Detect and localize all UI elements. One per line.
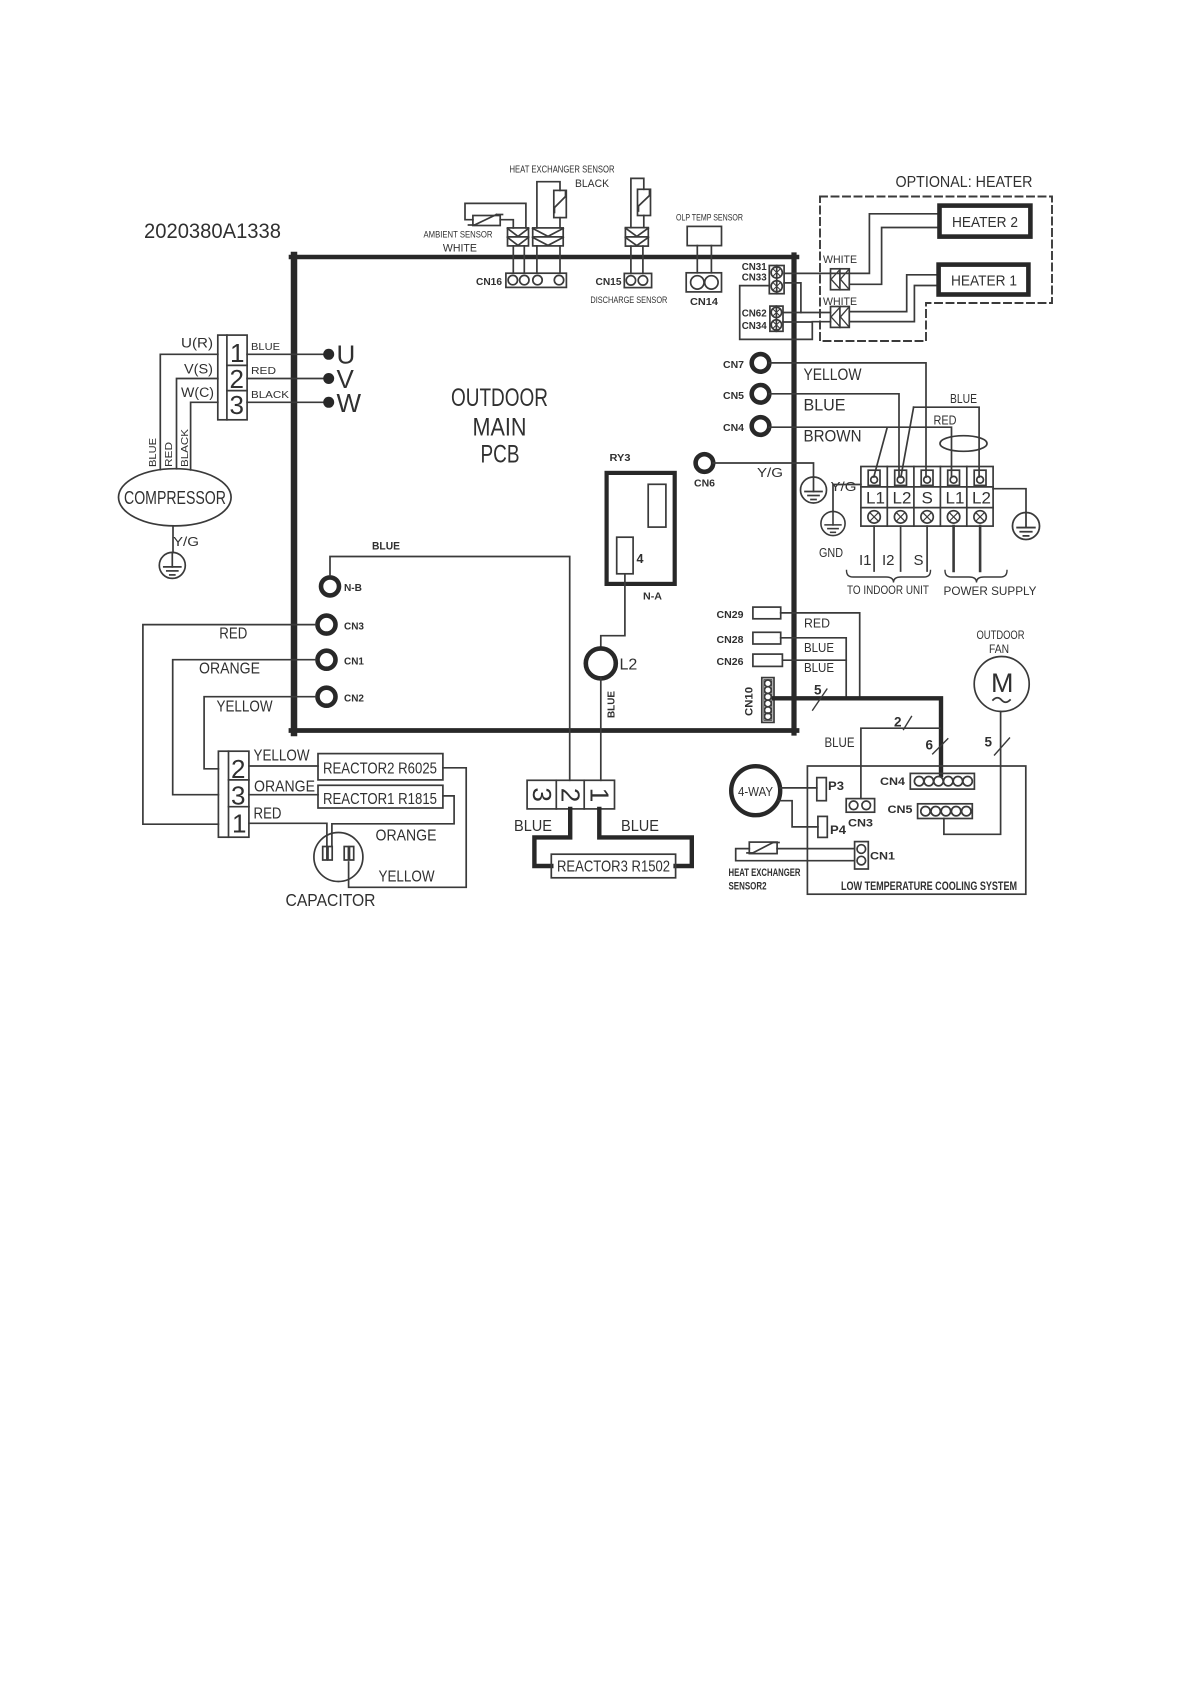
wire terminal 3 to node W [247,401,326,403]
thick wire pin2 to reactor3 [534,809,570,866]
wire terminal 1 to capacitor [249,823,327,846]
wire U(R) feed [160,354,218,469]
svg-text:L2: L2 [620,657,638,674]
svg-text:OLP TEMP SENSOR: OLP TEMP SENSOR [676,213,743,224]
heat exchanger sensor wire loop [537,182,560,228]
node U [323,349,334,360]
wire lower WHITE to heater 1 lower [849,286,938,322]
svg-text:RED: RED [164,442,175,467]
svg-text:2: 2 [894,715,902,730]
connector symbol heat exchanger sensor [533,228,564,246]
svg-text:CN6: CN6 [694,479,715,490]
terminal P3 [817,778,827,801]
connector symbol ambient sensor [508,228,529,246]
connector CN1 [318,651,336,669]
svg-text:GND: GND [819,546,843,560]
labels CN62 CN34 [742,308,767,333]
svg-text:CN15: CN15 [596,276,622,288]
svg-text:BLUE: BLUE [621,818,659,835]
heat exchanger sensor thermistor [554,190,567,217]
svg-text:CN62: CN62 [742,308,767,320]
svg-text:L1: L1 [866,489,885,508]
bundle marker 5 (bus) [813,689,827,710]
svg-text:P3: P3 [828,781,844,793]
svg-text:YELLOW: YELLOW [379,869,435,886]
ambient sensor thermistor [469,215,503,226]
svg-text:N-A: N-A [643,591,662,603]
wire CN62 to lower WHITE [783,312,831,314]
wire YELLOW CN2 to terminal 2 [204,697,316,769]
inductor L2 [586,648,616,678]
svg-text:1: 1 [584,788,614,802]
thick wire pin1 to reactor3 [599,809,692,866]
svg-text:CN2: CN2 [344,694,364,705]
wire terminal block to right ground [993,489,1026,513]
wire BROWN CN4 to terminal L1 power [769,427,951,477]
svg-text:RED: RED [251,366,276,377]
labels L1 L2 S L1 L2 [866,489,991,508]
connector CN15 [624,273,651,287]
connector CN2 [318,688,336,706]
thick bus CN10 to low temp CN4 [774,698,941,775]
wire CN3 low-temp 2-core [861,728,940,798]
wire BLUE power supply line [914,407,980,477]
labels I1 I2 S [859,552,924,569]
svg-text:WHITE: WHITE [443,243,477,255]
diagonal wire terminal L1 indoor to brown line [874,428,887,477]
connector CN28 [753,632,781,644]
wire terminal 2 to node V [247,378,326,380]
svg-text:CN7: CN7 [723,360,744,371]
wire Y/G CN6 to ground [713,463,813,477]
wire CN34 loop to lower WHITE lower pin [740,286,831,340]
svg-text:CN5: CN5 [723,391,744,402]
connector CN29 [753,607,781,619]
connector CN5 [752,385,770,403]
svg-text:ORANGE: ORANGE [376,828,437,845]
wire sensor2 to CN1 [736,849,855,861]
svg-text:BLUE: BLUE [804,640,834,655]
brace power supply [945,571,1007,583]
svg-text:WHITE: WHITE [823,254,857,266]
svg-text:P4: P4 [830,825,847,837]
svg-text:CN5: CN5 [888,804,913,816]
svg-text:BLUE: BLUE [950,391,977,406]
svg-text:5: 5 [814,683,822,698]
wires sensor leads into CN16 [513,246,560,273]
compressor ellipse [119,469,232,526]
wire upper WHITE to heater 2 lower [849,228,939,285]
wire RED CN29 to bus [781,613,860,697]
svg-text:I2: I2 [882,552,895,569]
wires below indoor terminals [874,526,927,571]
svg-text:REACTOR1 R1815: REACTOR1 R1815 [323,791,437,808]
svg-text:CN10: CN10 [744,687,756,716]
relay RY3 coil [617,537,633,574]
svg-text:CN1: CN1 [344,657,364,668]
svg-text:CN28: CN28 [717,635,744,646]
outdoor main PCB board outline [291,255,797,733]
heater 1 box [939,265,1029,295]
svg-text:CN16: CN16 [476,276,502,288]
discharge sensor wire loop [631,178,644,227]
svg-text:Y/G: Y/G [831,479,857,494]
svg-text:LOW TEMPERATURE COOLING SYSTEM: LOW TEMPERATURE COOLING SYSTEM [841,879,1017,893]
cable grommet ellipse [940,436,987,452]
ground right of terminal block [1012,512,1039,539]
svg-text:OUTDOOR: OUTDOOR [451,384,548,412]
connector CN1 low temp [855,842,869,869]
wire ORANGE CN1 to terminal 3 [173,660,316,795]
connector N-B [321,577,339,595]
svg-text:CN29: CN29 [717,610,744,621]
wire BLUE CN26 joins bus [782,659,846,661]
svg-text:5: 5 [985,735,993,750]
svg-text:CN26: CN26 [717,657,744,668]
reactor2 box [318,754,443,780]
svg-text:3: 3 [231,781,245,811]
svg-text:ORANGE: ORANGE [254,779,315,796]
bundle marker 6 [933,739,948,754]
wire N-B blue to reactor connector pin 2 [330,557,570,781]
svg-text:CN4: CN4 [723,423,744,434]
svg-text:CN34: CN34 [742,320,767,332]
svg-text:BLACK: BLACK [251,390,289,401]
svg-text:CN33: CN33 [742,272,767,284]
ground (compressor) [159,552,185,578]
svg-text:6: 6 [926,738,934,753]
brace to indoor unit [847,571,931,583]
svg-text:V(S): V(S) [184,362,213,377]
wire W(C) feed [191,402,218,470]
wire 4-way to P4 [779,801,818,827]
wire terminal 2 to reactor2 [249,765,318,767]
dashed optional heater enclosure [820,197,1052,342]
connector CN62/CN34 [770,306,783,331]
svg-text:BLUE: BLUE [148,438,159,467]
wire YELLOW reactor2 to capacitor [349,768,467,888]
connector CN4 low temp [910,773,974,789]
labels CN31 CN33 [742,261,767,284]
terminal strip U/V/W 1-2-3 [218,335,247,420]
wire compressor to ground [172,526,174,553]
label OUTDOOR MAIN PCB [451,384,548,469]
svg-text:3: 3 [527,787,557,801]
wire CN31 to heater 2 upper [784,214,939,274]
svg-text:N-B: N-B [344,583,362,594]
svg-text:RED: RED [804,616,830,631]
terminal block outline [861,467,993,527]
connector CN16 [506,273,567,287]
connector CN10 [762,678,774,723]
svg-text:3: 3 [230,390,244,420]
wire fan to CN5 low-temp [944,712,1001,835]
svg-text:OUTDOOR: OUTDOOR [977,628,1025,642]
connector CN6 [696,454,714,472]
svg-text:2020380A1338: 2020380A1338 [144,220,281,243]
connector WHITE upper [831,269,850,290]
wire CN33 to lower WHITE upper pin [784,283,801,313]
terminal strip 2-3-1 [218,751,249,837]
svg-text:BROWN: BROWN [804,428,862,446]
node V [323,373,334,384]
connector CN4 [752,417,770,435]
OLP temp sensor box [687,226,721,245]
wire GND to terminal block [833,485,861,512]
reactor connector 3-2-1 [527,780,614,809]
connector CN7 [752,354,770,372]
connector WHITE lower [831,307,850,328]
bundle marker 2 [904,717,912,730]
terminal P4 [818,816,827,837]
svg-text:CN4: CN4 [880,776,906,788]
ambient sensor wire loop [465,203,526,228]
svg-text:RED: RED [219,626,247,643]
connector symbol discharge sensor [625,228,648,247]
ground GND [821,511,845,535]
connector CN26 [753,654,783,666]
reactor3 box [551,854,675,878]
svg-text:MAIN: MAIN [473,414,527,442]
svg-text:L2: L2 [972,489,991,508]
node W [323,397,334,408]
svg-text:RED: RED [254,806,282,823]
svg-text:2: 2 [555,788,585,802]
svg-text:S: S [922,489,933,508]
svg-text:L1: L1 [946,489,965,508]
svg-text:BLUE: BLUE [514,818,552,835]
svg-text:Y/G: Y/G [757,465,783,480]
svg-text:1: 1 [232,809,246,839]
wire 4-way to P3 [780,787,817,789]
svg-text:FAN: FAN [989,642,1009,656]
svg-text:RED: RED [934,413,957,428]
4-way valve [731,766,780,815]
relay RY3 contact [648,484,666,527]
svg-text:COMPRESSOR: COMPRESSOR [124,487,226,508]
wire BLUE CN28 to bus [781,638,847,697]
svg-text:YELLOW: YELLOW [217,699,273,716]
connector CN14 [686,273,721,292]
svg-text:BLACK: BLACK [575,178,610,190]
svg-text:BLUE: BLUE [607,691,618,718]
heat exchanger sensor 2 thermistor [747,842,779,854]
wire lower WHITE to heater 1 upper [849,275,938,312]
wire terminal 1 to node U [247,353,326,355]
svg-text:AMBIENT SENSOR: AMBIENT SENSOR [424,230,493,241]
wire terminal 3 to reactor1 [249,794,318,796]
svg-text:REACTOR3 R1502: REACTOR3 R1502 [557,859,670,876]
svg-text:YELLOW: YELLOW [254,748,310,765]
svg-text:BLACK: BLACK [180,429,191,467]
svg-text:BLUE: BLUE [804,397,846,415]
svg-text:2: 2 [231,754,245,784]
svg-text:W(C): W(C) [181,385,214,400]
svg-text:HEAT EXCHANGER SENSOR: HEAT EXCHANGER SENSOR [510,165,615,176]
svg-text:4: 4 [637,552,644,566]
svg-text:W: W [337,388,362,418]
wire RY3 to L2 [601,574,625,647]
svg-text:I1: I1 [859,552,872,569]
svg-text:Y/G: Y/G [173,534,199,549]
svg-text:PCB: PCB [481,441,520,469]
svg-text:BLUE: BLUE [825,734,855,750]
svg-text:CN1: CN1 [870,851,895,863]
heater 2 box [940,206,1031,237]
ground Y/G near terminal block [801,477,827,503]
svg-text:OPTIONAL: HEATER: OPTIONAL: HEATER [896,174,1033,191]
wires discharge sensor leads into CN15 [631,246,643,273]
wire ORANGE reactor1 to capacitor [332,796,454,846]
label OUTDOOR FAN [977,628,1025,656]
svg-text:M: M [991,668,1014,698]
svg-text:U(R): U(R) [181,336,213,351]
reactor1 box [318,785,443,808]
discharge sensor thermistor [638,189,651,215]
low temperature cooling system box [807,766,1025,894]
svg-text:CAPACITOR: CAPACITOR [286,890,376,910]
connector CN3 [318,616,336,634]
svg-text:CN14: CN14 [690,296,718,308]
svg-text:REACTOR2 R6025: REACTOR2 R6025 [323,761,437,778]
wire BLUE CN5 to terminal L2 indoor [769,394,899,477]
terminal screw posts top row [868,470,986,485]
connector CN31/CN33 [769,266,784,294]
wire V(S) feed [177,379,218,469]
svg-text:ORANGE: ORANGE [199,661,260,678]
svg-text:POWER SUPPLY: POWER SUPPLY [944,584,1037,598]
svg-text:DISCHARGE SENSOR: DISCHARGE SENSOR [590,295,667,306]
labels 1 2 3 [230,338,245,420]
relay RY3 box [607,473,675,584]
svg-text:YELLOW: YELLOW [804,366,862,384]
svg-text:RY3: RY3 [610,452,631,464]
bundle marker 5 (fan) [995,738,1010,755]
terminal screws bottom row [868,511,986,523]
diagonal wire terminal L2 indoor to blue power line [901,407,914,477]
svg-text:TO INDOOR UNIT: TO INDOOR UNIT [847,583,930,597]
svg-text:BLUE: BLUE [372,541,400,553]
wires OLP sensor leads into CN14 [697,246,711,273]
svg-text:HEATER 2: HEATER 2 [952,214,1018,231]
svg-text:CN3: CN3 [848,818,873,830]
svg-text:4-WAY: 4-WAY [738,785,774,799]
wire YELLOW CN7 to terminal S [769,363,926,477]
wire RED CN3 to terminal 1 [143,625,316,825]
svg-text:L2: L2 [893,489,912,508]
capacitor [314,833,363,882]
svg-text:CN3: CN3 [344,622,364,633]
wires below power terminals [954,526,981,571]
svg-text:HEATER 1: HEATER 1 [951,273,1017,290]
connector CN5 low temp [918,804,973,819]
svg-text:SENSOR2: SENSOR2 [729,881,767,893]
svg-text:BLUE: BLUE [804,660,834,675]
outdoor fan motor M [974,657,1029,712]
svg-text:S: S [914,552,924,569]
svg-text:BLUE: BLUE [251,342,280,353]
svg-text:HEAT EXCHANGER: HEAT EXCHANGER [729,867,801,879]
labels 2 3 1 [231,754,246,839]
wire L2 to reactor connector pin 1 [600,678,602,780]
connector CN3 low temp [846,799,874,813]
